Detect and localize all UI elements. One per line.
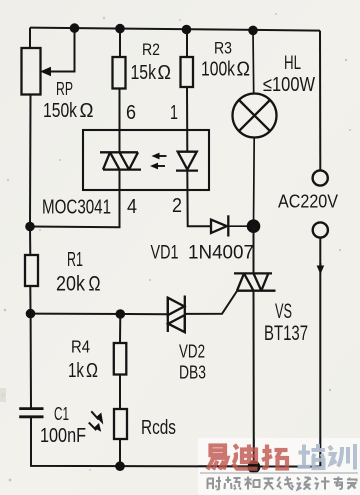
char 计	[315, 477, 330, 490]
svg-text:BT137: BT137	[264, 322, 308, 345]
wire bottom redrawn over backdrop	[198, 438, 320, 467]
svg-text:VD2: VD2	[179, 342, 205, 362]
node top wiper	[70, 23, 80, 33]
node VD1 cathode	[247, 219, 261, 233]
svg-text:RP: RP	[56, 79, 73, 99]
node top R2	[115, 24, 125, 34]
diac VD2	[168, 296, 185, 333]
watermark big char 培	[298, 444, 326, 468]
char 家	[347, 478, 357, 490]
light arrows inside U1	[150, 153, 167, 170]
wire pin 2 to VD1	[187, 171, 211, 227]
char 线	[277, 477, 294, 490]
wire right rail	[319, 31, 321, 467]
svg-text:MOC3041: MOC3041	[42, 196, 111, 219]
char 频	[225, 477, 242, 490]
svg-text:R2: R2	[142, 40, 160, 59]
svg-text:4: 4	[127, 196, 137, 218]
lamp HL	[233, 31, 277, 227]
watermark big char 易	[208, 446, 228, 470]
wire top rail	[30, 28, 320, 31]
svg-text:20k: 20k	[56, 273, 85, 296]
resistor R3	[181, 30, 194, 152]
svg-text:1: 1	[170, 102, 178, 124]
triac VS	[234, 273, 276, 290]
LED inside U1	[176, 152, 198, 171]
wire left rail lower	[31, 314, 321, 467]
svg-text:Ω: Ω	[80, 100, 94, 122]
svg-text:15k: 15k	[131, 62, 157, 84]
svg-text:6: 6	[126, 102, 136, 124]
node top lamp	[248, 26, 258, 36]
wire R1 node to diac	[31, 313, 168, 316]
watermark slogan 射频和天线设计专家	[208, 477, 357, 490]
capacitor C1	[19, 409, 43, 417]
svg-text:Ω: Ω	[237, 59, 251, 81]
svg-text:Ω: Ω	[89, 273, 101, 296]
watermark big char 拓	[262, 445, 288, 469]
node top R3	[182, 25, 192, 35]
diode VD1	[211, 215, 254, 236]
node R1 bottom	[26, 309, 36, 319]
transistor photo-triac inside U1	[100, 152, 141, 169]
svg-text:VS: VS	[275, 300, 292, 323]
light arrows to Rcds	[89, 411, 104, 431]
char 设	[297, 478, 311, 490]
svg-text:Ω: Ω	[158, 62, 172, 84]
svg-text:1k: 1k	[68, 360, 85, 382]
wire lamp to triac	[253, 226, 255, 273]
svg-text:1N4007: 1N4007	[188, 243, 254, 264]
svg-text:150k: 150k	[43, 100, 78, 122]
wiper of RP	[40, 28, 75, 76]
node triac bottom over backdrop	[248, 461, 261, 474]
svg-text:Rcds: Rcds	[141, 416, 176, 439]
watermark big char 迪	[233, 445, 258, 469]
wire gate of VS	[186, 291, 238, 314]
svg-text:2: 2	[172, 195, 182, 217]
node pin4 to left rail	[25, 222, 35, 232]
char 天	[264, 479, 274, 490]
wire left rail upper	[29, 28, 32, 227]
optocoupler U1 MOC3041 box	[83, 130, 209, 190]
svg-text:R1: R1	[67, 249, 83, 271]
char 射	[208, 477, 222, 490]
svg-text:HL: HL	[284, 53, 301, 74]
watermark backdrop	[198, 438, 360, 495]
wire triac to bottom	[253, 291, 255, 467]
potentiometer RP	[22, 48, 41, 95]
node triac bottom	[248, 461, 261, 474]
char 和	[245, 477, 260, 490]
resistor R4	[114, 314, 127, 409]
svg-text:AC220V: AC220V	[278, 192, 338, 212]
svg-text:≤100W: ≤100W	[263, 74, 315, 96]
svg-text:Ω: Ω	[86, 360, 98, 382]
watermark rule	[200, 472, 358, 474]
svg-text:100nF: 100nF	[40, 425, 86, 447]
wire left rail middle	[29, 227, 32, 314]
terminal AC220V top	[313, 170, 328, 185]
svg-text:C1: C1	[54, 404, 69, 424]
watermark big char 训	[329, 444, 356, 470]
svg-text:R4: R4	[71, 337, 90, 357]
node Rcds bottom	[115, 461, 125, 471]
char 专	[334, 477, 344, 489]
svg-text:DB3: DB3	[179, 363, 206, 383]
svg-text:VD1: VD1	[151, 243, 179, 264]
wire pin4 inside box	[30, 170, 120, 228]
terminal AC220V bottom	[313, 222, 328, 237]
node R4 top	[116, 309, 126, 319]
photoresistor Rcds	[114, 409, 127, 439]
svg-text:R3: R3	[214, 39, 232, 58]
svg-text:100k: 100k	[201, 59, 236, 81]
resistor R1	[25, 255, 38, 286]
current arrow on right rail	[319, 263, 321, 269]
resistor R2	[113, 29, 126, 153]
